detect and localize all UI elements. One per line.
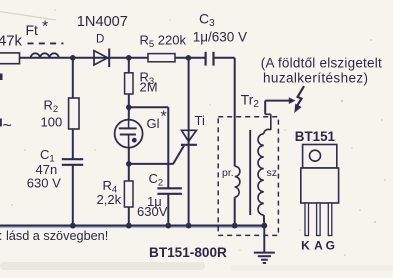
svg-text:2M: 2M	[140, 80, 158, 95]
svg-text:*: *	[161, 109, 167, 126]
svg-text:1μ/630 V: 1μ/630 V	[193, 30, 247, 45]
svg-text:*: lásd a szövegben!: *: lásd a szövegben!	[0, 229, 108, 243]
svg-text:100: 100	[41, 114, 63, 129]
svg-text:A: A	[314, 239, 323, 253]
svg-text:630V: 630V	[137, 204, 168, 219]
svg-text:K: K	[301, 239, 310, 253]
svg-text:47k: 47k	[0, 34, 22, 50]
svg-text:(A földtől elszigetelt: (A földtől elszigetelt	[261, 55, 382, 70]
svg-text:Ft: Ft	[26, 22, 39, 38]
svg-text:2,2k: 2,2k	[97, 192, 122, 207]
svg-text:sz.: sz.	[267, 167, 280, 179]
svg-text:BT151-800R: BT151-800R	[149, 245, 227, 260]
svg-text:huzalkerítéshez): huzalkerítéshez)	[263, 70, 368, 85]
svg-text:R5 220k: R5 220k	[140, 33, 187, 51]
svg-text:1N4007: 1N4007	[77, 14, 128, 30]
svg-text:Ti: Ti	[195, 113, 205, 128]
svg-text:*: *	[42, 19, 48, 36]
svg-text:G: G	[326, 239, 335, 253]
svg-text:pr.: pr.	[222, 167, 234, 179]
svg-text:630 V: 630 V	[27, 175, 61, 190]
svg-text:D: D	[96, 34, 104, 46]
svg-text:~: ~	[3, 118, 12, 135]
svg-text:BT151: BT151	[295, 129, 336, 144]
svg-text:Gl: Gl	[147, 116, 160, 131]
